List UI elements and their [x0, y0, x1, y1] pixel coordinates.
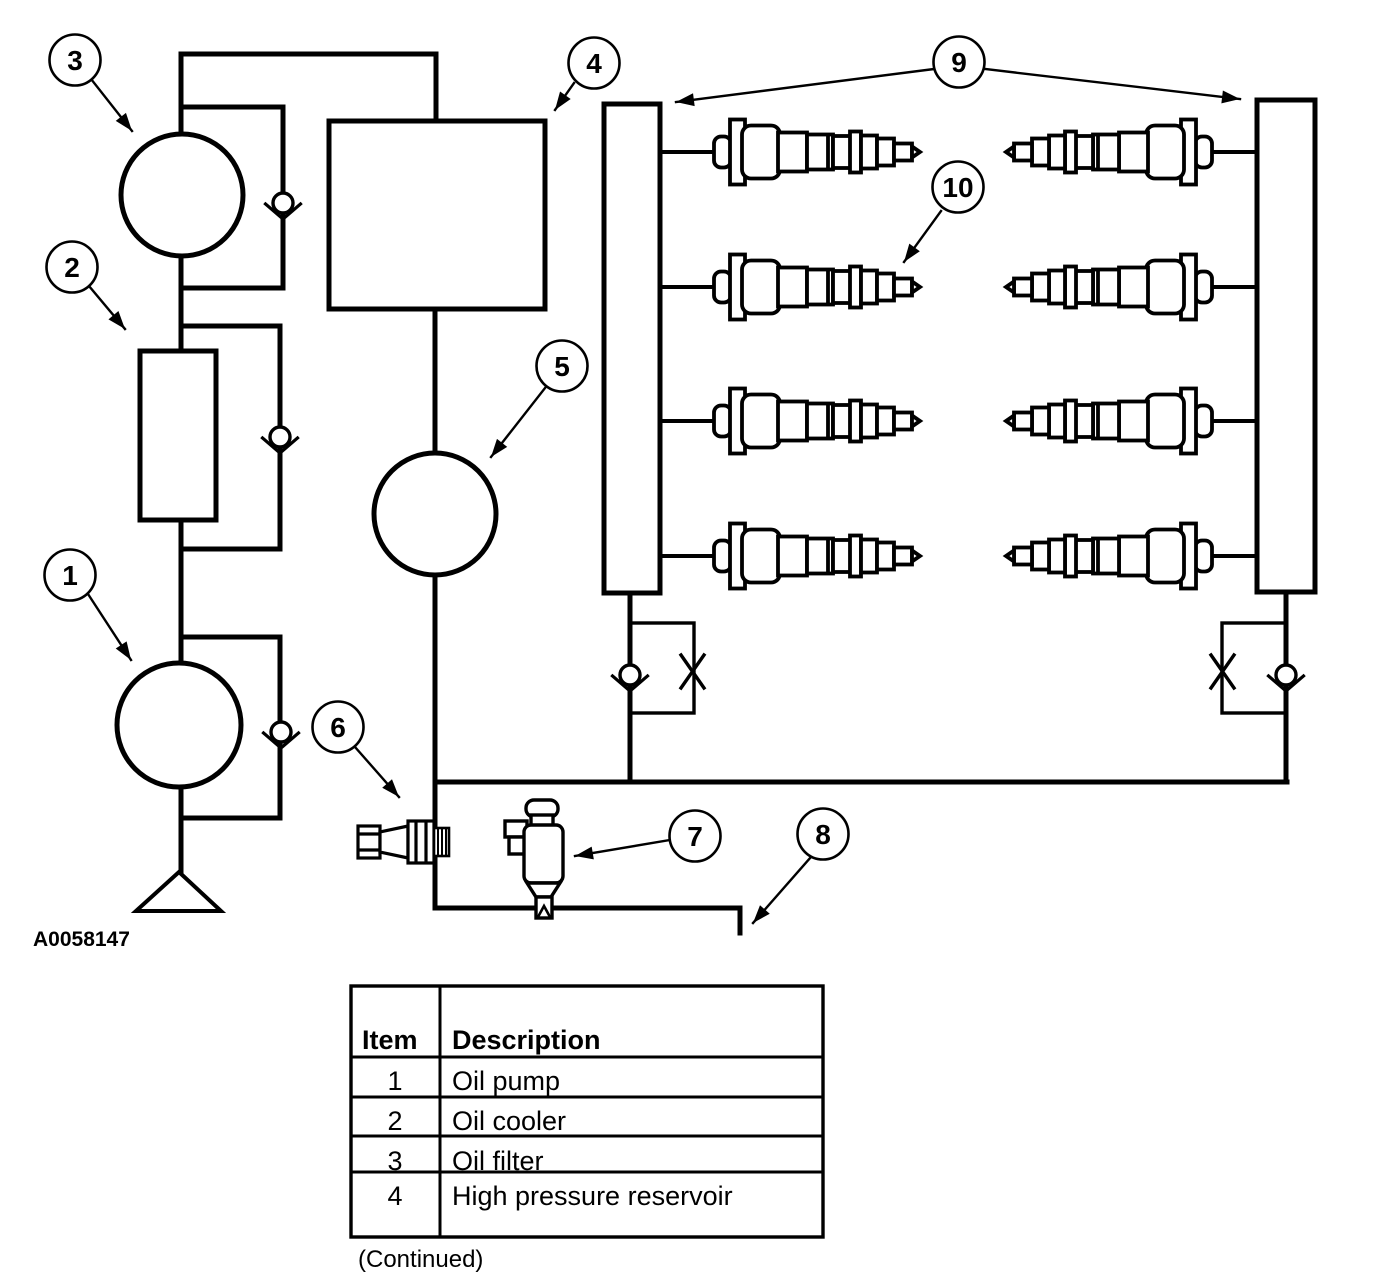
svg-text:7: 7: [687, 821, 703, 852]
pressure sensor fitting (item 6): [358, 821, 449, 863]
orifice X symbol left: [681, 655, 704, 688]
legend table column divider: [439, 986, 442, 1237]
svg-text:3: 3: [67, 45, 83, 76]
left regulator box: [630, 623, 694, 713]
fuel injector row3 right (item 10): [1006, 389, 1212, 454]
svg-text:1: 1: [62, 560, 78, 591]
svg-text:Oil pump: Oil pump: [452, 1066, 560, 1096]
pressure regulator valve (item 7): [505, 800, 563, 918]
fuel injector row1 left (item 10): [714, 120, 920, 185]
callout 6: [313, 702, 400, 798]
left oil rail (item 9): [604, 104, 660, 593]
svg-text:1: 1: [387, 1066, 402, 1096]
svg-text:Item: Item: [362, 1025, 418, 1055]
wire: bypass loop around oil cooler: [181, 326, 280, 549]
svg-text:(Continued): (Continued): [358, 1246, 483, 1273]
svg-text:4: 4: [387, 1181, 402, 1211]
right oil rail (item 9): [1257, 100, 1315, 592]
legend table row lines: [351, 1057, 823, 1172]
check valve near oil pump: [264, 722, 299, 748]
check valve left regulator: [613, 665, 648, 691]
callout 9 with two arrows: [676, 37, 1240, 103]
callout 5: [491, 341, 588, 458]
fuel injector row2 left (item 10): [714, 255, 920, 320]
oil pump circle (item 1): [117, 663, 241, 787]
svg-text:4: 4: [586, 48, 602, 79]
svg-text:6: 6: [330, 712, 346, 743]
svg-text:5: 5: [554, 351, 570, 382]
svg-text:9: 9: [951, 47, 967, 78]
svg-text:2: 2: [387, 1106, 402, 1136]
injector wires right rail: [1197, 152, 1257, 556]
svg-text:Oil filter: Oil filter: [452, 1146, 544, 1176]
orifice X symbol right: [1211, 655, 1234, 688]
wire: lower return manifold line: [435, 780, 1287, 785]
wire: right rail drop line: [1284, 592, 1289, 782]
fuel injector row2 right (item 10): [1006, 255, 1212, 320]
right regulator box: [1222, 623, 1286, 713]
wire: reservoir to pump 5 and down: [433, 309, 438, 908]
wire: reservoir feed drop: [434, 54, 439, 121]
strainer triangle: [136, 872, 221, 911]
check valve right regulator: [1269, 665, 1304, 691]
oil cooler rectangle (item 2): [140, 351, 216, 520]
callout 4: [555, 38, 620, 111]
svg-text:2: 2: [64, 252, 80, 283]
wire: drain elbow end (item 8): [738, 908, 743, 933]
fuel injector row4 left (item 10): [714, 524, 920, 589]
callout 1: [45, 550, 132, 661]
wire: top header line: [181, 52, 436, 57]
high pressure pump circle (item 5): [374, 453, 496, 575]
fuel injector row1 right (item 10): [1006, 120, 1212, 185]
high pressure reservoir (item 4): [329, 121, 545, 309]
fuel injector row4 right (item 10): [1006, 524, 1212, 589]
legend rows text: [387, 1066, 732, 1211]
wire: main left vertical line: [179, 54, 184, 874]
check valve near oil cooler: [263, 427, 298, 453]
svg-text:Oil cooler: Oil cooler: [452, 1106, 566, 1136]
wire: bottom drain line: [435, 906, 740, 911]
callout 7: [575, 811, 721, 862]
svg-text:High pressure reservoir: High pressure reservoir: [452, 1181, 733, 1211]
callout 10: [904, 162, 984, 263]
svg-text:3: 3: [387, 1146, 402, 1176]
svg-text:A0058147: A0058147: [33, 928, 130, 951]
wire: bypass loop around oil filter: [181, 107, 283, 288]
callout 3: [50, 35, 133, 132]
svg-text:Description: Description: [452, 1025, 601, 1055]
wire: left rail drop line: [628, 593, 633, 782]
callout 2: [47, 242, 126, 330]
callout 8: [753, 809, 849, 924]
injector wires left rail: [660, 152, 716, 556]
svg-text:8: 8: [815, 819, 831, 850]
wire: bypass loop around oil pump: [181, 637, 280, 818]
svg-text:10: 10: [942, 172, 973, 203]
check valve near oil filter: [266, 193, 301, 219]
legend header text: [362, 1025, 601, 1055]
fuel injector row3 left (item 10): [714, 389, 920, 454]
oil filter circle (item 3): [121, 134, 243, 256]
legend table frame: [351, 986, 823, 1237]
